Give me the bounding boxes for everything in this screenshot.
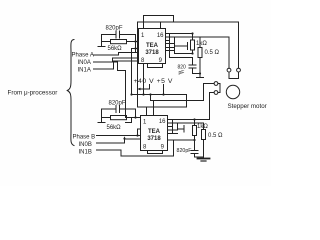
wire U1 left riser bbox=[137, 22, 139, 107]
supply rail between ICs bbox=[132, 95, 187, 108]
resistor R4 56k bbox=[111, 116, 127, 120]
+40V arrow bbox=[141, 85, 150, 90]
capacitor C3 820pF bottom-left bbox=[109, 101, 126, 107]
resistor R3 0.5 ohm bbox=[205, 50, 220, 56]
wire column x131 bbox=[131, 49, 133, 95]
motor winding B terminals bbox=[214, 82, 218, 86]
label IN1B bbox=[79, 150, 92, 156]
label Phase B bbox=[73, 135, 96, 141]
label IN1A bbox=[78, 68, 91, 74]
wire U1 top loop inner to motor bbox=[138, 22, 239, 68]
svg-text:IN0A: IN0A bbox=[78, 60, 91, 66]
wire pin8 to rail bbox=[143, 64, 145, 95]
svg-text:56kΩ: 56kΩ bbox=[107, 125, 122, 131]
wire pins 8-9 U-link below U2 bbox=[148, 151, 163, 154]
wire IN1B long route under U2 bbox=[97, 140, 174, 156]
label IN0A bbox=[78, 60, 91, 66]
wire pin stub y48 bbox=[132, 48, 139, 50]
svg-text:Phase A: Phase A bbox=[72, 53, 94, 59]
U1 right stubs bbox=[166, 41, 175, 51]
wire IN0A bbox=[94, 62, 126, 71]
wire IN0B to U2 bbox=[97, 139, 141, 143]
op-amp U2 TEA3718 (driver IC) bbox=[141, 116, 168, 151]
wire U1 top loop outer bbox=[144, 16, 174, 29]
wire comparator B with end bar bbox=[178, 126, 185, 133]
resistor R1 56k bbox=[111, 40, 127, 44]
capacitor C2 820pF sense bbox=[178, 65, 187, 77]
wire RC node down to Phase A line bbox=[135, 42, 137, 53]
wire pins 8-9 U-link below U1 bbox=[148, 64, 163, 68]
svg-text:820pF: 820pF bbox=[106, 26, 123, 32]
svg-text:IN0B: IN0B bbox=[79, 142, 92, 148]
supply label bbox=[134, 78, 174, 85]
capacitor C1 820pF top-left bbox=[106, 26, 123, 32]
resistor R5 1k bbox=[197, 124, 208, 130]
wire IN0A branch to U1 bbox=[113, 58, 139, 62]
svg-text:3718: 3718 bbox=[145, 50, 159, 56]
wire Phase A to U1 bbox=[94, 53, 139, 56]
label IN0B bbox=[79, 142, 92, 148]
resistor R6 0.5 ohm bbox=[208, 133, 223, 139]
op-amp U1 TEA3718 (driver IC) bbox=[139, 29, 166, 64]
svg-text:Stepper motor: Stepper motor bbox=[228, 103, 267, 110]
svg-text:820pF: 820pF bbox=[109, 101, 126, 107]
svg-text:TEA: TEA bbox=[148, 129, 161, 135]
wire comparator with end bar bbox=[175, 43, 188, 50]
wire Phase B to U2 bbox=[97, 135, 141, 137]
svg-text:16: 16 bbox=[157, 33, 164, 39]
svg-text:TEA: TEA bbox=[146, 43, 159, 49]
wire pin15 output to motor left column bbox=[166, 37, 230, 68]
terminal stub left of R1 bbox=[98, 42, 105, 47]
wire pin15 U2 to R6 bbox=[168, 122, 204, 124]
wire to R2 node bbox=[175, 53, 193, 55]
capacitor C4 820pF sense bbox=[177, 148, 193, 154]
node R1/C1 to U1 pin1 bbox=[134, 40, 136, 42]
svg-text:Phase B: Phase B bbox=[73, 135, 96, 141]
+5V stub bbox=[163, 85, 165, 95]
wire IN0A column bbox=[125, 71, 127, 118]
wire winding B lower lead bbox=[210, 93, 215, 120]
label Phase A bbox=[72, 53, 94, 59]
svg-text:16: 16 bbox=[159, 119, 166, 125]
wire pin16 U2 to winding B riser bbox=[168, 119, 210, 121]
motor winding A terminals bbox=[227, 68, 231, 72]
svg-text:0.5 Ω: 0.5 Ω bbox=[205, 50, 220, 56]
svg-text:From μ-processor: From μ-processor bbox=[8, 90, 58, 97]
U2 right stubs bbox=[168, 127, 178, 134]
svg-text:IN1A: IN1A bbox=[78, 68, 91, 74]
wire rail to motor left top terminal bbox=[151, 84, 215, 101]
resistor R2 1k bbox=[196, 41, 207, 47]
ground stub bbox=[197, 74, 204, 78]
svg-text:IN1B: IN1B bbox=[79, 150, 92, 156]
svg-text:1kΩ: 1kΩ bbox=[196, 41, 207, 47]
wire pin16 stub to node bbox=[166, 33, 193, 35]
svg-text:820pF: 820pF bbox=[177, 148, 193, 154]
wire IN1A to U1 bbox=[94, 61, 139, 69]
svg-text:56kΩ: 56kΩ bbox=[108, 46, 123, 52]
vertical bus right of U1 bbox=[170, 34, 175, 58]
svg-text:0.5 Ω: 0.5 Ω bbox=[208, 133, 223, 139]
wire branch up into U2 bbox=[138, 129, 141, 136]
stepper motor body bbox=[226, 85, 239, 98]
wire C4 node line bbox=[168, 139, 195, 141]
ground bbox=[203, 157, 205, 160]
wire to C2 bbox=[170, 57, 193, 59]
wire pin16 drop bbox=[160, 22, 162, 29]
label: From u-processor bbox=[8, 90, 58, 97]
brace grouping inputs bbox=[67, 40, 74, 146]
wire pin stub y122 bbox=[126, 118, 132, 123]
svg-text:3718: 3718 bbox=[147, 136, 161, 142]
svg-text:+40 V +5 V: +40 V +5 V bbox=[134, 78, 174, 85]
wire U2 top drops bbox=[147, 101, 154, 116]
svg-text:pF: pF bbox=[179, 70, 185, 76]
